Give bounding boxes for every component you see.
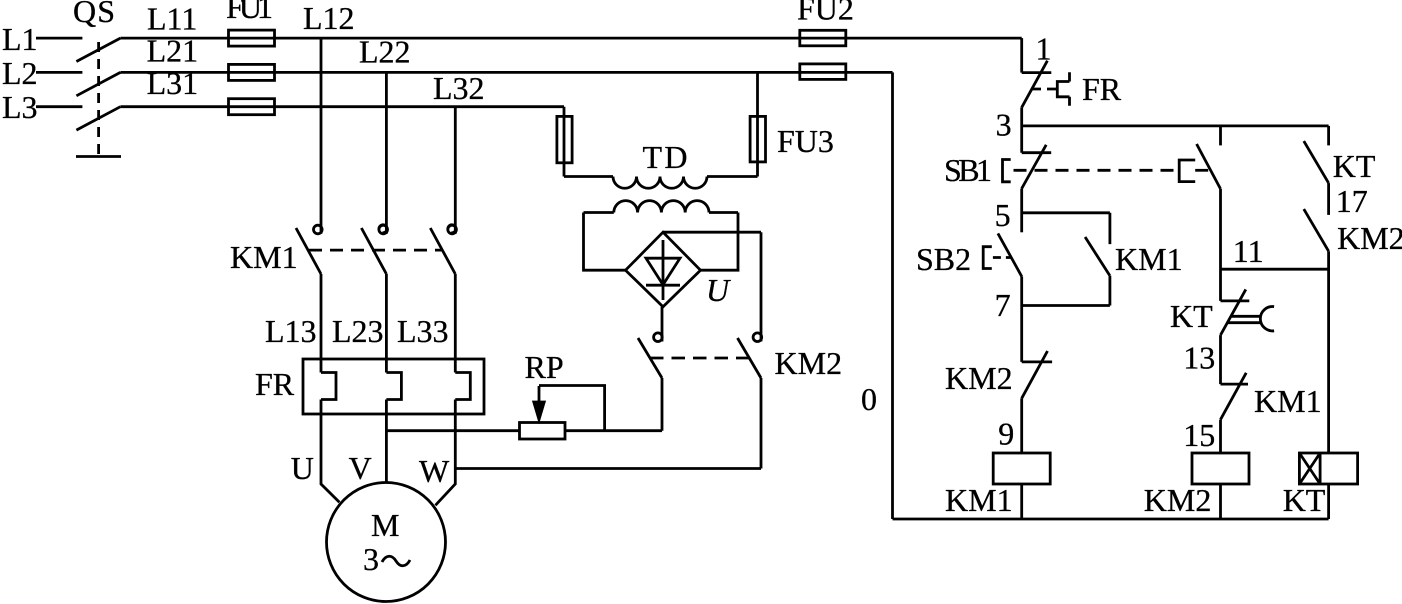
svg-text:TD: TD (643, 139, 688, 175)
svg-text:1: 1 (1036, 31, 1052, 67)
svg-text:FR: FR (255, 366, 295, 402)
svg-text:13: 13 (1183, 340, 1215, 376)
svg-text:L32: L32 (433, 70, 485, 106)
svg-text:L11: L11 (147, 1, 197, 37)
svg-text:FU3: FU3 (777, 123, 834, 159)
svg-text:L12: L12 (303, 0, 355, 36)
svg-text:L13: L13 (265, 313, 317, 349)
svg-text:M: M (371, 507, 399, 543)
svg-text:17: 17 (1336, 183, 1368, 219)
svg-text:L21: L21 (147, 33, 199, 69)
svg-text:15: 15 (1183, 417, 1215, 453)
svg-text:L2: L2 (2, 55, 38, 91)
svg-text:FU1: FU1 (226, 0, 273, 25)
svg-text:L22: L22 (359, 34, 411, 70)
svg-text:FR: FR (1082, 71, 1122, 107)
svg-text:RP: RP (525, 349, 564, 385)
svg-text:KM2: KM2 (1144, 482, 1212, 518)
svg-text:KT: KT (1333, 148, 1376, 184)
svg-text:L31: L31 (147, 65, 199, 101)
svg-text:L33: L33 (397, 313, 449, 349)
svg-text:V: V (349, 450, 372, 486)
svg-text:FU2: FU2 (797, 0, 854, 27)
svg-text:U: U (706, 272, 731, 308)
svg-text:L1: L1 (2, 21, 38, 57)
svg-text:KM1: KM1 (945, 482, 1013, 518)
svg-text:7: 7 (995, 287, 1011, 323)
svg-text:L3: L3 (2, 89, 38, 125)
svg-text:3: 3 (363, 541, 379, 577)
svg-text:SB1: SB1 (944, 152, 992, 188)
svg-text:3: 3 (996, 107, 1012, 143)
svg-text:W: W (419, 453, 450, 489)
svg-text:SB2: SB2 (916, 241, 971, 277)
svg-text:9: 9 (998, 416, 1014, 452)
svg-text:11: 11 (1233, 233, 1264, 269)
svg-text:0: 0 (861, 381, 877, 417)
svg-text:U: U (291, 450, 314, 486)
svg-text:KM1: KM1 (1254, 383, 1322, 419)
svg-text:KM2: KM2 (775, 345, 843, 381)
svg-text:KM2: KM2 (1337, 220, 1402, 256)
svg-text:KT: KT (1283, 482, 1326, 518)
svg-text:KT: KT (1170, 298, 1213, 334)
svg-text:QS: QS (73, 0, 115, 29)
svg-text:KM1: KM1 (1115, 241, 1183, 277)
svg-text:KM1: KM1 (230, 239, 298, 275)
svg-text:KM2: KM2 (945, 360, 1013, 396)
svg-text:5: 5 (995, 197, 1011, 233)
svg-text:L23: L23 (332, 313, 384, 349)
